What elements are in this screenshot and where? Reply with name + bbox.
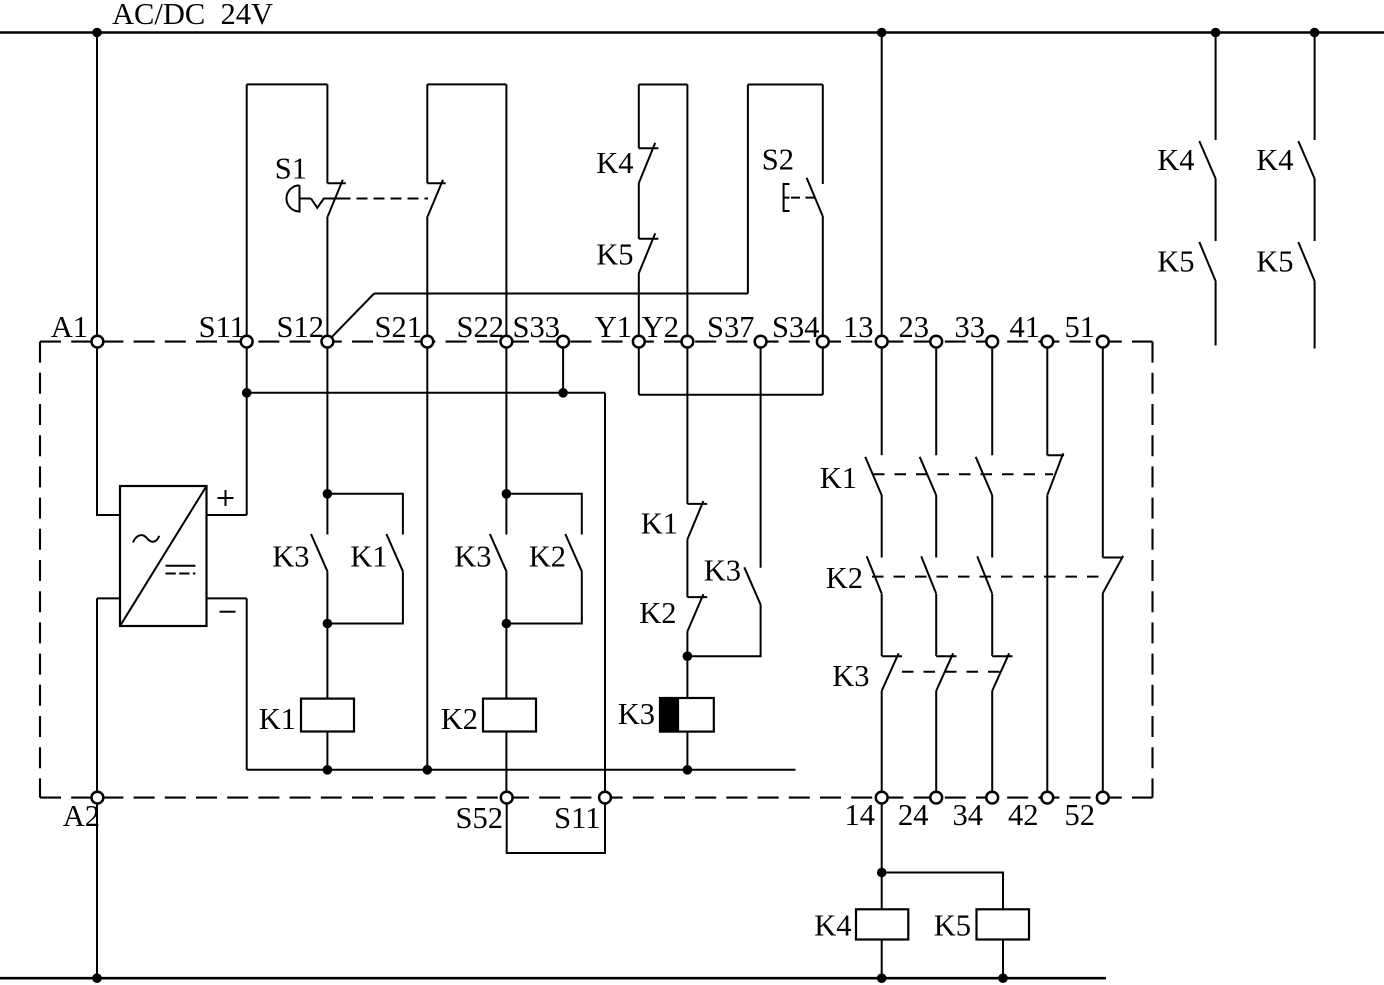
wire K3 contact upper stub (S22 column) <box>505 494 507 535</box>
wire column 33 upper <box>991 342 993 456</box>
svg-text:S37: S37 <box>707 310 754 344</box>
svg-text:23: 23 <box>899 310 930 344</box>
wire K3 contact upper stub <box>326 494 328 535</box>
wire rail to bottom S11 terminal <box>604 393 606 798</box>
junction K4 coil at bottom bus <box>877 973 887 983</box>
terminal 51 <box>1097 336 1109 348</box>
relay coil K3 outline <box>660 698 714 732</box>
contact K2 fixed tick (Y2 column) <box>687 596 707 598</box>
wire column 13 between K2 and K3 rows <box>881 594 883 656</box>
wire S37 terminal to K3 contact <box>760 342 762 568</box>
S2 key actuator bracket <box>784 184 790 211</box>
Y1 to S34 internal jumper <box>639 394 823 396</box>
svg-text:13: 13 <box>843 310 874 344</box>
wire column 1 lower end <box>1215 281 1217 345</box>
contact K5 lever col B (NO) <box>1298 242 1314 281</box>
contact K3 lever (NO, S22 column) <box>490 534 507 571</box>
contact K2 col51 fixed tick <box>1103 557 1123 559</box>
junction A2 column at bottom bus <box>92 973 102 983</box>
wire Y2 column between K1 and K2 <box>686 539 688 597</box>
junction K1 coil at rail <box>323 765 333 775</box>
svg-text:41: 41 <box>1010 310 1041 344</box>
wire branch to K5 coil <box>882 873 1003 910</box>
S2 loop left leg <box>747 85 749 294</box>
power supply diagonal <box>120 486 207 626</box>
S1 plunger <box>300 198 312 200</box>
S1 loop top <box>247 83 328 85</box>
wire column 13 to terminal 14 and K4/K5 branch <box>881 691 883 873</box>
svg-text:K2: K2 <box>441 702 478 736</box>
junction on bus at K4/K5 column 1 <box>1211 28 1221 38</box>
contact S1-S21 fixed tick <box>427 182 445 184</box>
svg-text:Y2: Y2 <box>642 310 679 344</box>
contact K3 lever col33 (NC) <box>992 653 1009 691</box>
terminal 14 <box>876 792 888 804</box>
terminal S33 <box>557 336 569 348</box>
enclosure left edge <box>39 342 41 798</box>
junction rail at S11 column <box>242 388 252 398</box>
junction on bus at K4/K5 column 2 <box>1310 28 1320 38</box>
AC tilde symbol <box>133 535 159 542</box>
relay coil K1 <box>301 699 354 732</box>
svg-text:K4: K4 <box>1256 143 1293 177</box>
svg-text:K2: K2 <box>826 561 863 595</box>
svg-text:K5: K5 <box>1256 245 1293 279</box>
svg-text:51: 51 <box>1065 310 1096 344</box>
S2 loop top <box>748 84 823 86</box>
Y1/Y2 loop top <box>639 84 688 86</box>
wire K1 branch lower <box>327 571 403 623</box>
terminal 42 <box>1041 792 1053 804</box>
svg-text:34: 34 <box>953 798 984 832</box>
wire column 13 between K1 and K2 rows <box>881 495 883 558</box>
safety relay module dashed enclosure top edge <box>40 341 1153 343</box>
contact K5 lever col A (NO) <box>1199 242 1215 281</box>
terminal S34 <box>817 336 829 348</box>
K2 row mechanical linkage dashed <box>872 576 1106 578</box>
plus sign <box>218 490 234 506</box>
wire minus column down to coil rail <box>246 598 248 769</box>
svg-text:K5: K5 <box>1157 245 1194 279</box>
svg-text:K5: K5 <box>596 238 633 272</box>
terminal 34 <box>986 792 998 804</box>
contact K3 col23 fixed tick <box>936 655 956 657</box>
wire S34 leg lower to jumper <box>822 216 824 395</box>
wire S33 terminal to rail <box>562 342 564 393</box>
svg-text:S21: S21 <box>375 310 422 344</box>
wire column 33 to terminal 34 <box>991 691 993 798</box>
enclosure right edge <box>1151 342 1153 798</box>
contact S1-S12 lever (NC) <box>328 180 343 217</box>
wire Y1 leg lower to jumper <box>638 273 640 395</box>
terminal 24 <box>930 792 942 804</box>
wire K1 branch upper <box>327 494 403 535</box>
wire K3 contact lower to K1 coil <box>326 571 328 698</box>
wire S22 leg down to K3/K2 pair <box>505 84 507 493</box>
contact K1 lever (NC, Y2 column) <box>687 501 703 539</box>
terminal S52 <box>501 792 513 804</box>
S21/S22 loop top <box>427 83 506 85</box>
terminal S21 <box>421 336 433 348</box>
wire column 1 between K4 and K5 <box>1215 179 1217 241</box>
contact K3 lever (NO, S12 column) <box>311 534 327 571</box>
terminal A2 <box>92 792 104 804</box>
contact K4 lever col B (NO) <box>1298 141 1314 179</box>
terminal 33 <box>986 336 998 348</box>
contact K3 col13 fixed tick <box>882 655 902 657</box>
svg-text:K4: K4 <box>596 146 633 180</box>
wire S21 column to coil rail <box>426 216 428 770</box>
wire column 51 upper <box>1102 342 1104 558</box>
svg-text:K4: K4 <box>814 908 851 942</box>
top supply bus AC/DC 24V <box>0 31 1384 34</box>
contact S1-S21 lever (NC) <box>428 180 443 217</box>
wire column 41 upper <box>1046 342 1048 456</box>
terminal 52 <box>1097 792 1109 804</box>
wire branch to K4 coil <box>881 873 883 910</box>
svg-text:14: 14 <box>845 798 876 832</box>
contact S2 lever (NO) <box>807 178 823 216</box>
wire column 13 from bus to K1 row <box>881 33 883 456</box>
svg-text:33: 33 <box>955 310 986 344</box>
wire column 23 to terminal 24 <box>935 691 937 798</box>
contact K1 lever col33 (NO) <box>976 457 992 495</box>
junction on bus at A1 column <box>92 28 102 38</box>
junction above K3 coil <box>683 651 693 661</box>
svg-text:S2: S2 <box>762 143 794 177</box>
contact K1 lever col41 (NC) <box>1047 453 1063 495</box>
enclosure bottom edge <box>40 797 1153 799</box>
contact K1 lever col13 (NO) <box>865 457 881 495</box>
wire PS minus output stub <box>207 597 247 599</box>
wire S12 diagonal to S2 loop <box>327 294 374 342</box>
contact K5 fixed tick (Y1 leg) <box>639 238 659 240</box>
wire S12 leg upper <box>326 84 328 183</box>
contact K2 lever (NC, Y2 column) <box>687 594 703 631</box>
junction K4/K5 branch <box>877 868 887 878</box>
junction K3/K1 pair bottom <box>323 619 333 629</box>
wire Y2 column to K3 coil junction <box>686 632 688 699</box>
svg-text:S22: S22 <box>457 310 504 344</box>
S1 plunger spring notch <box>311 199 351 208</box>
junction K3/K1 pair top <box>323 489 333 499</box>
wire K4 coil to bottom bus <box>881 940 883 979</box>
contact K1 fixed tick (Y2 column) <box>687 503 707 505</box>
wire column 41 lower (through K2/K3 rows) <box>1046 495 1048 797</box>
S2 actuator dashed linkage <box>791 197 816 199</box>
relay coil K3 filled section <box>660 698 679 732</box>
svg-text:K3: K3 <box>618 697 655 731</box>
wire column 33 between K2 and K3 rows <box>991 594 993 656</box>
wire PS plus output to S11 column <box>207 514 247 516</box>
wire column 23 between K1 and K2 rows <box>935 495 937 558</box>
svg-text:A1: A1 <box>51 310 88 344</box>
relay coil K2 <box>483 699 536 732</box>
contact K2 lever col13 (NO) <box>867 556 882 593</box>
svg-text:K3: K3 <box>704 554 741 588</box>
wire S11 column (loop leg, terminal, to PS plus) <box>246 84 248 515</box>
contact K2 lever col51 (NC) <box>1103 556 1123 593</box>
contact K2 lever col33 (NO) <box>977 556 992 593</box>
contact K2 lever (NO) <box>565 534 582 571</box>
wire K3 contact lower to K2 coil <box>505 571 507 698</box>
S1 mechanical linkage dashed <box>357 198 429 200</box>
K1 row mechanical linkage dashed <box>873 473 1053 475</box>
K3 row mechanical linkage dashed <box>902 671 1006 673</box>
contact K1 col41 fixed tick <box>1047 454 1064 456</box>
wire K3 coil to rail <box>686 732 688 770</box>
wire right K4/K5 series column 2 upper <box>1314 33 1316 141</box>
svg-text:K3: K3 <box>272 539 309 573</box>
wire Y1 leg upper <box>638 85 640 149</box>
terminal 13 <box>876 336 888 348</box>
contact K2 lever col23 (NO) <box>921 556 936 593</box>
wire column 33 between K1 and K2 rows <box>991 495 993 558</box>
relay coil K5 <box>977 909 1030 939</box>
svg-text:K3: K3 <box>454 539 491 573</box>
svg-text:S1: S1 <box>275 152 307 186</box>
wire A2 column down to bottom bus <box>96 598 98 978</box>
wire S12 leg lower to K3/K1 pair <box>326 216 328 494</box>
terminal Y1 <box>633 336 645 348</box>
svg-text:Y1: Y1 <box>595 310 632 344</box>
svg-text:K1: K1 <box>350 539 387 573</box>
svg-text:K1: K1 <box>259 702 296 736</box>
svg-text:52: 52 <box>1065 798 1096 832</box>
svg-text:K4: K4 <box>1157 143 1194 177</box>
coil return rail <box>247 769 796 771</box>
junction K3 coil at rail <box>683 765 693 775</box>
svg-text:K1: K1 <box>820 461 857 495</box>
svg-text:K3: K3 <box>832 659 869 693</box>
wire S12 to S2 loop horizontal <box>374 293 748 295</box>
terminal S11 bottom <box>599 792 611 804</box>
wire column 23 between K2 and K3 rows <box>935 594 937 656</box>
contact K3 lever col23 (NC) <box>936 653 953 691</box>
svg-text:24: 24 <box>898 798 929 832</box>
svg-text:S33: S33 <box>513 310 560 344</box>
terminal S37 <box>755 336 767 348</box>
contact S1-S12 fixed tick <box>327 182 345 184</box>
bottom return bus <box>0 977 1106 980</box>
terminal S11 <box>241 336 253 348</box>
terminal 41 <box>1041 336 1053 348</box>
minus sign <box>220 611 236 613</box>
wire right K4/K5 series column 1 upper <box>1215 33 1217 141</box>
wire K2 branch upper <box>506 494 581 535</box>
svg-text:S12: S12 <box>277 310 324 344</box>
wire Y1 leg between K4 and K5 <box>638 183 640 239</box>
jumper S52 to S11 bottom <box>507 798 605 853</box>
wire K5 coil to bottom bus <box>1002 940 1004 979</box>
contact K3 lever col13 (NC) <box>882 653 899 691</box>
junction K3/K2 pair bottom <box>502 619 512 629</box>
DC symbol dashed line <box>166 573 196 575</box>
contact K1 lever col23 (NO) <box>920 457 936 495</box>
terminal A1 <box>92 336 104 348</box>
junction on bus at 13 column <box>877 28 887 38</box>
wire K3 contact branch to junction <box>687 605 760 656</box>
svg-text:K2: K2 <box>529 539 566 573</box>
wire S34 leg upper <box>822 85 824 185</box>
wire K1 coil to rail <box>326 732 328 770</box>
junction rail at S33 column <box>558 388 568 398</box>
wire column 2 between K4 and K5 <box>1314 179 1316 241</box>
wire K2 coil to S52 terminal <box>505 732 507 798</box>
wire K2 branch lower <box>506 571 581 623</box>
relay coil K4 <box>856 909 908 939</box>
wire bus to A1 and power supply input <box>97 33 120 516</box>
contact K4 lever (NC) <box>639 143 655 183</box>
contact K1 lever (NO) <box>386 534 403 571</box>
contact K3 col33 fixed tick <box>992 655 1012 657</box>
contact K4 fixed tick (Y1 leg) <box>639 147 659 149</box>
svg-text:A2: A2 <box>63 799 100 833</box>
svg-text:42: 42 <box>1008 798 1039 832</box>
wire column 23 upper <box>935 342 937 456</box>
wire S21 leg upper <box>426 84 428 183</box>
terminal S22 <box>501 336 513 348</box>
wire PS left bottom stub <box>97 597 120 599</box>
wire column 51 lower (through K3 row) <box>1102 593 1104 797</box>
terminal Y2 <box>682 336 694 348</box>
wire column 2 lower end <box>1314 281 1316 348</box>
svg-text:K2: K2 <box>639 596 676 630</box>
junction S21 column at rail <box>423 765 433 775</box>
DC symbol solid line <box>166 565 196 567</box>
svg-text:S11: S11 <box>554 801 600 835</box>
svg-text:S34: S34 <box>772 310 819 344</box>
contact K5 lever (NC) <box>639 233 655 273</box>
wire Y2 leg down to K1 contact <box>686 85 688 504</box>
power supply unit PS rectangle <box>120 486 207 626</box>
svg-text:S52: S52 <box>456 801 503 835</box>
contact K4 lever col A (NO) <box>1199 141 1215 179</box>
svg-text:S11: S11 <box>199 310 245 344</box>
svg-text:K1: K1 <box>641 507 678 541</box>
internal supply rail S11-S33 <box>247 392 605 394</box>
junction K3/K2 pair top <box>502 489 512 499</box>
svg-text:AC/DC 24V: AC/DC 24V <box>112 0 273 31</box>
terminal 23 <box>930 336 942 348</box>
S1 emergency stop button head <box>286 185 299 211</box>
terminal S12 <box>322 336 334 348</box>
contact K3 lever (NO, S37 column) <box>744 567 760 605</box>
svg-text:K5: K5 <box>934 908 971 942</box>
junction K5 coil at bottom bus <box>998 973 1008 983</box>
